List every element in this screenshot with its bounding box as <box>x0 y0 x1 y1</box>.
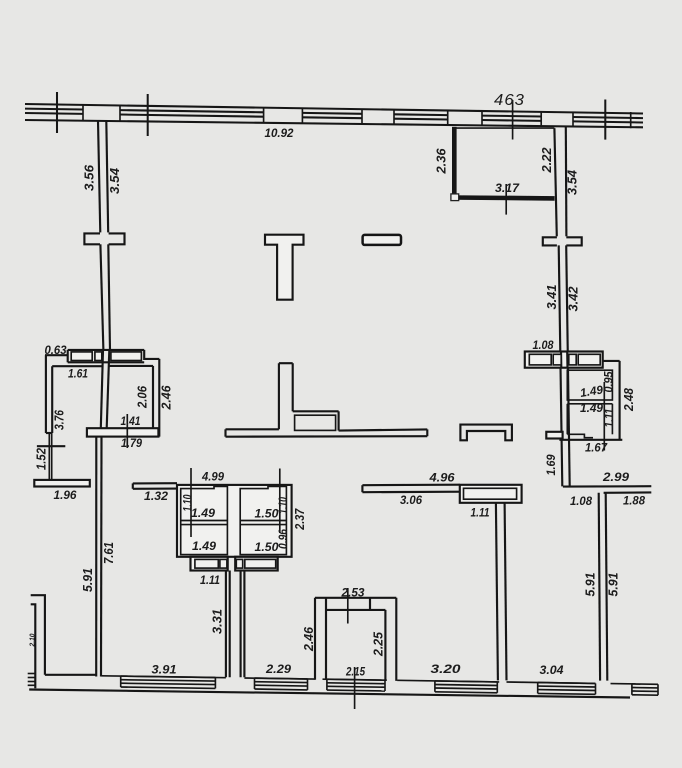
svg-text:7.61: 7.61 <box>102 542 116 564</box>
bottom window W2 glazing <box>255 678 308 690</box>
svg-text:2.25: 2.25 <box>372 631 386 657</box>
bottom-left wall hatch line 4 <box>28 684 36 686</box>
central wall mid segment right line <box>107 350 110 428</box>
storage right bottom row square <box>236 559 242 568</box>
storage cell left outline with notch <box>181 486 228 554</box>
bottom window W5 glazing <box>538 683 596 695</box>
pier P2 left edge <box>263 108 265 123</box>
central wall lower left line <box>95 437 97 677</box>
bay right wall outer line <box>395 598 397 681</box>
bay left wall outer line <box>314 598 316 680</box>
leader line for 2.53 <box>347 588 349 624</box>
right lintel block rect 2 <box>578 354 600 365</box>
left interior wall upper right line <box>106 121 108 233</box>
svg-text:1.52: 1.52 <box>35 448 49 470</box>
thin bar 1.32 top line <box>133 482 177 484</box>
dimension tick 1.52 <box>37 445 65 447</box>
top-right room top line <box>457 127 555 129</box>
bottom-left wall hatch line 2 <box>28 677 36 679</box>
svg-text:1.49: 1.49 <box>191 506 215 520</box>
leader line left cells b <box>279 469 281 534</box>
right interior wall left line (room right edge) <box>554 128 556 237</box>
central wall mid segment left line <box>101 350 103 428</box>
bathroom bottom wall band (white filled) <box>87 428 158 436</box>
lintel row left cap <box>67 350 69 362</box>
svg-text:3.54: 3.54 <box>108 168 122 194</box>
leader line for 2.15 <box>354 667 356 709</box>
storage left bottom row rect <box>195 559 218 568</box>
pier box above 1.11 outer <box>460 485 522 503</box>
pier P3 right edge <box>393 110 395 125</box>
left room (1.61x3.76) inner top line <box>52 365 102 367</box>
bottom line of room 3.20 <box>397 680 499 682</box>
storage cell left divider line b <box>181 524 228 526</box>
hall wall A top line <box>226 428 279 430</box>
right room outer right wall <box>619 361 621 440</box>
left wall thin segment line b <box>51 433 53 480</box>
bottom-left exterior wall outer step <box>31 595 45 675</box>
pier P3 left edge <box>361 109 363 124</box>
right horizontal wall H2 <box>604 491 652 494</box>
top window glazing line L3 segment b <box>120 115 264 117</box>
top window glazing line L2 segment e <box>482 115 541 118</box>
right horizontal wall H1 <box>563 485 651 488</box>
pier box above 1.11 inner <box>464 488 517 499</box>
left interior wall lower left line <box>100 244 103 350</box>
svg-text:4.96: 4.96 <box>428 471 455 485</box>
svg-text:1.32: 1.32 <box>144 489 168 503</box>
wall stub S2 left line <box>278 363 280 429</box>
right lintel block square 2 <box>569 354 576 365</box>
svg-text:463: 463 <box>494 92 525 109</box>
corridor wall bar 4.96 bottom line <box>362 491 463 494</box>
svg-text:0.95: 0.95 <box>602 371 616 392</box>
svg-text:1.10: 1.10 <box>276 497 290 514</box>
middle lower wall (5.91) right line <box>505 503 507 681</box>
hall long bottom line <box>226 435 428 438</box>
bottom window W6 glazing <box>632 684 658 695</box>
svg-text:1.08: 1.08 <box>570 494 592 508</box>
svg-text:3.20: 3.20 <box>431 662 462 676</box>
middle lower wall (5.91) left line <box>496 503 498 681</box>
bathroom outer right wall line <box>158 359 160 437</box>
right lower wall (5.91) right line <box>606 493 608 681</box>
pier P5 left edge <box>540 112 542 126</box>
svg-text:2.06: 2.06 <box>136 385 150 409</box>
right interior wall (3.41/3.42) right line <box>566 245 570 486</box>
hall bar C right cap <box>426 429 428 436</box>
right lower wall (5.91) left line <box>599 493 600 681</box>
bottom window W1 glazing <box>121 676 216 688</box>
top-right room corner notch <box>451 194 459 201</box>
bottom-left exterior wall inner step <box>31 604 36 688</box>
crossbar junction on left wall (plus shape) <box>84 232 124 245</box>
bathroom inner right line <box>152 366 154 429</box>
top wall right end mark <box>630 112 632 128</box>
top window glazing line L3 segment d <box>394 118 448 121</box>
right cell B floor with step <box>567 434 593 437</box>
svg-text:1.96: 1.96 <box>54 488 77 502</box>
right interior wall right line <box>565 126 568 237</box>
svg-text:3.17: 3.17 <box>495 181 520 195</box>
svg-text:2.46: 2.46 <box>160 385 174 411</box>
svg-text:1.88: 1.88 <box>623 494 645 508</box>
survey tick mark 3 on top wall <box>604 100 606 140</box>
lintel block rect 1 <box>71 352 92 361</box>
hall bar C top line <box>339 429 428 430</box>
storage right bottom row rect <box>245 559 276 568</box>
bay right wall inner line <box>384 610 386 681</box>
svg-text:5.91: 5.91 <box>607 573 621 597</box>
svg-text:3.91: 3.91 <box>152 663 177 677</box>
corridor wall bar 4.96 top line <box>362 484 459 487</box>
top window glazing line L2 segment b <box>120 110 264 112</box>
svg-text:5.91: 5.91 <box>81 568 95 592</box>
leader line for 1.41/1.79 <box>126 414 128 448</box>
svg-text:1.11: 1.11 <box>200 573 220 587</box>
top window glazing line L3 segment a <box>25 112 83 115</box>
svg-text:1.49: 1.49 <box>192 539 216 553</box>
lintel row bottom line <box>68 361 145 363</box>
storage box outer <box>177 485 292 557</box>
leader line left cells a <box>190 468 192 537</box>
storage cell right outline with notch <box>240 486 286 554</box>
bay window top bar top line <box>315 597 396 599</box>
hall box B outer top line <box>293 410 339 412</box>
wall stub rectangle right of T-column <box>363 235 401 245</box>
leader line for 3.17 <box>505 184 507 215</box>
svg-text:1.61: 1.61 <box>68 367 88 381</box>
staple-shaped wall stub marker <box>460 425 512 441</box>
bottom line of bay room <box>323 679 387 680</box>
hall wall A left cap <box>224 429 226 436</box>
right lintel block rect 1 <box>529 354 551 365</box>
pier P5 right edge <box>572 112 574 126</box>
T-column in living room <box>265 235 304 300</box>
pier P1 right edge <box>119 106 121 122</box>
pier P2 right edge <box>301 108 303 123</box>
svg-text:3.06: 3.06 <box>400 493 422 507</box>
left wall thin segment line a <box>48 433 50 480</box>
right cell A (1.49x0.95) <box>567 370 612 400</box>
svg-text:2.48: 2.48 <box>622 388 636 412</box>
bottom line of right room <box>611 683 641 685</box>
svg-text:1.08: 1.08 <box>533 338 554 352</box>
left room top boundary line (0.63) <box>45 354 68 356</box>
top window glazing line L3 segment f <box>573 121 643 122</box>
bottom line of room 2.29 <box>244 678 315 679</box>
bottom window W4 glazing <box>435 681 497 693</box>
svg-text:0.63: 0.63 <box>45 343 67 357</box>
svg-text:1.67: 1.67 <box>585 441 608 455</box>
hall box B inner rect <box>295 415 336 430</box>
right wall lines crossing lintel row b <box>566 352 568 368</box>
top window glazing line L2 segment f <box>573 117 643 118</box>
right wall lines crossing lintel row a <box>560 352 562 368</box>
svg-text:2.99: 2.99 <box>602 470 630 484</box>
left interior wall lower right line <box>108 244 110 350</box>
svg-text:3.54: 3.54 <box>566 170 580 195</box>
thin bar 1.32 bottom line <box>133 488 177 490</box>
right cell B left line <box>566 404 568 435</box>
right lintel block square 1 <box>553 354 561 365</box>
svg-text:2.29: 2.29 <box>265 662 292 676</box>
corridor right wall line a <box>240 571 242 678</box>
left exterior wall outer line <box>45 355 47 433</box>
svg-text:3.04: 3.04 <box>540 663 564 677</box>
wall stub S2 top cap <box>279 362 293 364</box>
survey tick mark 1 on top wall <box>56 92 58 133</box>
main bottom exterior wall line <box>29 690 630 698</box>
survey tick mark 2 on top wall <box>147 94 149 136</box>
bottom line of room 3.91 <box>101 676 226 678</box>
bay left wall inner line <box>325 598 327 680</box>
svg-text:1.11: 1.11 <box>471 506 490 520</box>
storage right bottom row outer <box>235 557 278 571</box>
svg-text:3.31: 3.31 <box>211 609 225 634</box>
svg-text:3.56: 3.56 <box>83 164 97 191</box>
corridor right wall line b <box>243 571 245 678</box>
lintel block square <box>95 352 102 361</box>
bottom-left room bottom line <box>45 674 96 676</box>
svg-text:1.11: 1.11 <box>602 409 616 428</box>
leader line for 463 <box>512 100 514 140</box>
lintel row step down <box>144 350 159 359</box>
bay window top bar bottom line <box>326 609 385 611</box>
svg-text:3.42: 3.42 <box>567 287 581 312</box>
T-bar junction on right wall (plus shape) <box>543 236 582 246</box>
svg-text:5.91: 5.91 <box>584 573 598 597</box>
top window glazing line L3 segment e <box>482 119 541 122</box>
thin bar 1.32 left cap <box>132 483 134 488</box>
storage left bottom row square <box>220 559 227 568</box>
pier P4 left edge <box>447 111 449 126</box>
bottom window W3 bay glazing <box>327 679 385 691</box>
svg-text:4.99: 4.99 <box>201 470 224 484</box>
svg-text:1.50: 1.50 <box>255 540 279 554</box>
storage left bottom row outer <box>191 557 228 571</box>
storage cell right divider line b <box>240 524 286 526</box>
svg-text:10.92: 10.92 <box>265 126 294 140</box>
right cell B top line <box>567 403 612 405</box>
svg-text:1.49: 1.49 <box>580 401 603 415</box>
bottom-left wall hatch line 3 <box>28 681 36 683</box>
storage cell left divider line a <box>181 520 228 522</box>
right wall left stub <box>546 432 562 439</box>
pier P4 right edge <box>481 111 483 125</box>
left exterior wall end cap <box>46 432 52 434</box>
top window glazing line L3 segment c <box>302 116 362 119</box>
wall bar 1.96 <box>34 480 90 487</box>
left interior wall upper (3.56/3.54) left line <box>98 121 100 234</box>
corridor left wall line a <box>225 571 227 678</box>
right cell B right line <box>611 404 613 435</box>
pier P1 left edge <box>82 105 84 121</box>
svg-text:2.22: 2.22 <box>540 148 554 174</box>
top window glazing line L2 segment c <box>302 112 362 115</box>
top window glazing line L2 segment a <box>25 108 83 111</box>
leader line right cells <box>603 382 605 451</box>
lintel block rect 2 <box>111 352 141 361</box>
central wall lower right line <box>100 437 103 677</box>
svg-text:2.36: 2.36 <box>435 147 449 174</box>
bottom-left wall hatch line 1 <box>28 673 36 675</box>
corridor left wall line b <box>229 571 231 678</box>
right interior wall (3.41/3.42) left line <box>559 245 563 486</box>
lintel row outer top line <box>68 349 145 351</box>
bathroom (1.41x2.06) inner top line <box>109 365 153 367</box>
top exterior window wall line L1 (continuous) <box>25 104 643 114</box>
svg-text:3.76: 3.76 <box>53 409 67 430</box>
left exterior wall inner line <box>51 366 53 433</box>
bottom line of room 3.04 <box>507 682 596 683</box>
svg-text:1.79: 1.79 <box>121 436 142 450</box>
corridor wall bar 4.96 left cap <box>361 485 363 492</box>
wall stub S2 right line <box>292 363 294 411</box>
hall box B right vertical <box>338 411 340 430</box>
right room outer bottom line <box>559 439 622 441</box>
svg-text:2.46: 2.46 <box>302 626 316 652</box>
storage cell right divider line a <box>240 520 286 522</box>
svg-text:2.53: 2.53 <box>340 586 364 600</box>
svg-text:2.10: 2.10 <box>30 633 37 647</box>
top-right room thick bottom wall <box>452 195 554 200</box>
top-right room thick left wall <box>452 127 457 198</box>
svg-text:3.41: 3.41 <box>545 285 559 310</box>
right room outer top line <box>603 360 620 362</box>
svg-text:2.37: 2.37 <box>293 508 307 531</box>
top exterior window wall line L4 (continuous) <box>25 120 643 127</box>
right lintel row outer box <box>525 352 603 368</box>
svg-text:1.41: 1.41 <box>121 414 141 428</box>
top window glazing line L2 segment d <box>394 113 448 116</box>
bay top bar divider <box>369 598 371 610</box>
svg-text:2.15: 2.15 <box>345 665 365 679</box>
svg-text:1.69: 1.69 <box>544 454 558 475</box>
